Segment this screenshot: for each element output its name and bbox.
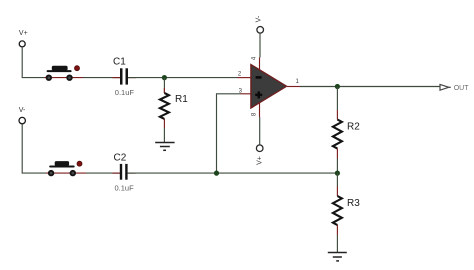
resistor R1 (160, 78, 188, 128)
svg-text:V+: V+ (19, 30, 28, 37)
op-amp supply terminal V- (top) (255, 15, 263, 72)
svg-text:R2: R2 (347, 121, 360, 132)
op-amp pin 2 stub (238, 77, 252, 79)
node junction C1/R1 (162, 75, 167, 80)
wire op-amp pin 3 down to bottom rail (217, 94, 241, 173)
svg-text:V-: V- (19, 107, 26, 114)
op-amp U1 (251, 65, 287, 108)
node junction output/R2 (335, 84, 340, 89)
svg-text:V-: V- (255, 15, 262, 22)
node junction bottom rail / R2 / R3 (335, 171, 340, 176)
wire pushbutton 2 to C2 (86, 172, 120, 174)
op-amp pin 3 stub (241, 93, 252, 95)
capacitor C2 (113, 153, 136, 193)
capacitor C1 (113, 57, 137, 97)
wire V+ terminal down and right to pushbutton (22, 47, 44, 78)
wire C1 to op-amp pin 2 (128, 77, 238, 79)
wire R1 to ground (163, 128, 165, 143)
svg-text:V+: V+ (257, 156, 264, 165)
op-amp pin 1 output stub (287, 86, 300, 88)
resistor R3 (333, 173, 360, 235)
svg-text:C2: C2 (114, 153, 127, 164)
wire output to OUT terminal (300, 86, 440, 88)
svg-text:0.1uF: 0.1uF (115, 88, 135, 97)
terminal OUT (440, 84, 469, 91)
wire pushbutton to C1 (83, 77, 121, 79)
svg-text:R1: R1 (175, 94, 188, 105)
wire R3 to ground (336, 235, 338, 253)
ground (under R3) (328, 253, 347, 261)
terminal V+ (19, 30, 28, 47)
wire C2 to R2/R3 junction (bottom rail) (128, 172, 338, 174)
ground (under R1) (155, 143, 174, 151)
svg-text:C1: C1 (113, 57, 126, 68)
svg-text:0.1uF: 0.1uF (115, 183, 135, 192)
wire V- terminal down and right to pushbutton 2 (22, 124, 46, 173)
pushbutton (bottom) (46, 161, 86, 176)
svg-text:R3: R3 (347, 198, 360, 209)
svg-text:OUT: OUT (454, 85, 470, 92)
pushbutton (top) (44, 66, 83, 81)
resistor R2 (333, 87, 360, 174)
terminal V- (left) (19, 107, 26, 124)
op-amp supply terminal V+ (bottom) (256, 102, 263, 165)
node junction pin3/bottom rail (214, 171, 219, 176)
